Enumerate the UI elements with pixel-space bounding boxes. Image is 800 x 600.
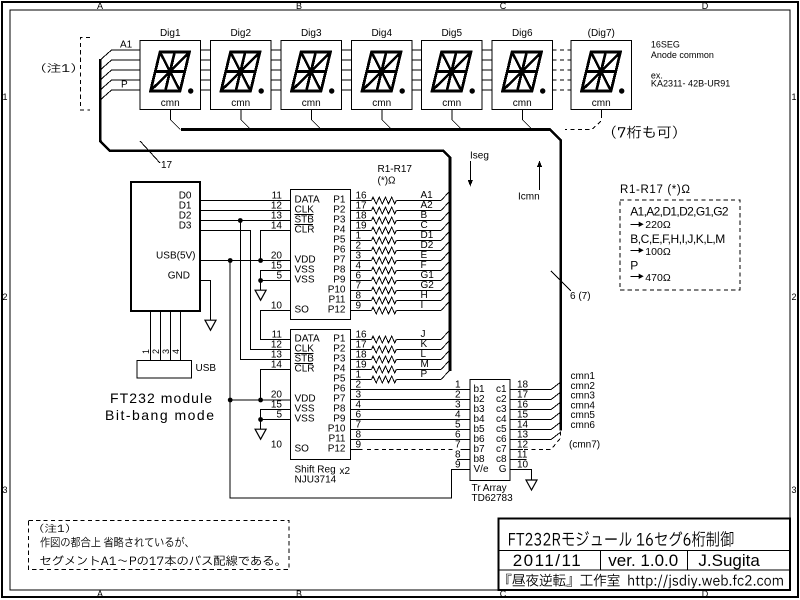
svg-text:3: 3 bbox=[791, 485, 796, 495]
title footer bbox=[506, 574, 783, 589]
svg-text:x2: x2 bbox=[340, 466, 351, 477]
display Dig5 bbox=[422, 28, 483, 110]
wire U4 c3 to cmn3 bbox=[510, 403, 560, 410]
svg-text:NJU3714: NJU3714 bbox=[295, 475, 337, 486]
svg-text:220Ω: 220Ω bbox=[645, 219, 671, 231]
svg-text:cmn: cmn bbox=[161, 98, 180, 109]
wire U4 c7 (cmn7) dashed bbox=[510, 432, 561, 450]
svg-text:VSS: VSS bbox=[295, 275, 315, 286]
wire cmn Dig3 bbox=[311, 110, 321, 130]
ground U2 bbox=[255, 290, 266, 300]
svg-text:USB: USB bbox=[196, 363, 217, 374]
net labels cmn1-cmn6 bbox=[571, 371, 596, 431]
wire U3 P7 to U4 b2 bbox=[351, 399, 471, 401]
display Dig6 bbox=[492, 28, 553, 110]
bus width tick 6 (7) bbox=[551, 271, 591, 302]
svg-text:470Ω: 470Ω bbox=[645, 272, 671, 284]
shift register U2 NJU3714 bbox=[291, 190, 351, 320]
svg-text:14: 14 bbox=[271, 360, 283, 371]
wire U2 SO to U3 DATA bbox=[261, 311, 291, 340]
svg-text:cmn: cmn bbox=[513, 98, 532, 109]
resistor R14 bbox=[351, 339, 450, 353]
svg-text:2: 2 bbox=[791, 292, 796, 302]
svg-text:CLR: CLR bbox=[295, 225, 315, 236]
svg-text:14: 14 bbox=[271, 221, 283, 232]
svg-text:FT232 module: FT232 module bbox=[110, 390, 212, 406]
svg-text:USB(5V): USB(5V) bbox=[156, 251, 195, 262]
wire D0 to U2 DATA bbox=[200, 200, 291, 202]
pin numbers U2 left bbox=[271, 191, 283, 312]
wire U3 P9 to U4 b4 bbox=[351, 419, 471, 421]
svg-text:cmn6: cmn6 bbox=[571, 420, 596, 431]
ground U3 bbox=[255, 429, 266, 439]
wire U3 P10 to U4 b5 bbox=[351, 429, 471, 431]
resistor R12 bbox=[351, 300, 450, 314]
shift reg caption bbox=[295, 465, 351, 486]
svg-text:5: 5 bbox=[276, 410, 282, 421]
display Dig7 bbox=[571, 28, 632, 110]
transistor array U4 TD62783 bbox=[470, 380, 510, 481]
svg-text:(Dig7): (Dig7) bbox=[588, 28, 615, 39]
svg-text:2: 2 bbox=[151, 349, 161, 354]
wire U3 P11 to U4 b6 bbox=[351, 439, 471, 441]
svg-text:V/e: V/e bbox=[474, 464, 489, 475]
resistor R4 bbox=[351, 220, 450, 234]
svg-text:3: 3 bbox=[2, 485, 7, 495]
stub U4 c8 bbox=[510, 459, 527, 461]
svg-text:A1: A1 bbox=[120, 40, 133, 51]
wire U3 P6 to U4 b1 bbox=[351, 389, 471, 391]
pin numbers U4 right bbox=[517, 380, 529, 471]
resistor R16 bbox=[351, 359, 450, 373]
note ref (chu1) top bbox=[42, 63, 75, 73]
svg-text:P12: P12 bbox=[328, 305, 346, 316]
svg-text:I: I bbox=[421, 300, 424, 311]
ground FT232 bbox=[205, 320, 216, 330]
display Dig2 bbox=[211, 28, 272, 110]
FT232 module U1 bbox=[131, 182, 200, 311]
wire USB5V to U2 VDD bbox=[200, 258, 291, 263]
current arrow Iseg bbox=[468, 151, 489, 187]
wire D2 to U2 STB and U3 STB bbox=[200, 218, 291, 359]
svg-text:R1-R17 (*)Ω: R1-R17 (*)Ω bbox=[620, 184, 690, 196]
svg-text:Dig1: Dig1 bbox=[160, 28, 181, 39]
svg-text:P12: P12 bbox=[328, 444, 346, 455]
wire U4 c5 to cmn5 bbox=[510, 423, 560, 430]
svg-text:1: 1 bbox=[791, 92, 796, 102]
shift register U3 NJU3714 bbox=[291, 330, 351, 460]
svg-text:ver. 1.0.0: ver. 1.0.0 bbox=[608, 551, 678, 570]
svg-text:10: 10 bbox=[271, 440, 283, 451]
svg-text:10: 10 bbox=[271, 301, 283, 312]
wire 5V rail down to U3 VDD and V/e bbox=[228, 261, 470, 499]
svg-text:Dig4: Dig4 bbox=[371, 28, 392, 39]
svg-text:cmn: cmn bbox=[442, 98, 461, 109]
svg-text:(*)Ω: (*)Ω bbox=[378, 176, 397, 187]
note box dashed bbox=[29, 521, 290, 570]
svg-text:B: B bbox=[296, 589, 302, 599]
resistor R8 bbox=[351, 260, 450, 274]
wire segment bus between digits bbox=[201, 50, 493, 90]
svg-text:(cmn7): (cmn7) bbox=[569, 440, 600, 451]
pin numbers U3 right bbox=[356, 330, 368, 451]
wire cmn Dig5 bbox=[452, 110, 462, 130]
svg-text:P: P bbox=[421, 369, 428, 380]
svg-text:9: 9 bbox=[455, 460, 461, 471]
svg-text:16SEG: 16SEG bbox=[651, 39, 680, 49]
ground U4 bbox=[526, 480, 537, 490]
svg-text:4: 4 bbox=[171, 349, 181, 354]
wire U3 VSS pair to ground bbox=[255, 410, 290, 440]
FT232 caption bbox=[105, 390, 214, 423]
resistor value table bbox=[620, 184, 740, 290]
wire cmn Dig7 dashed bbox=[565, 110, 601, 130]
svg-text:P: P bbox=[630, 259, 638, 273]
svg-text:B: B bbox=[296, 1, 302, 11]
wire cmn Dig6 bbox=[522, 110, 532, 130]
svg-text:6 (7): 6 (7) bbox=[570, 291, 591, 302]
svg-text:9: 9 bbox=[356, 301, 362, 312]
svg-text:GND: GND bbox=[168, 271, 190, 282]
svg-text:B,C,E,F,H,I,J,K,L,M: B,C,E,F,H,I,J,K,L,M bbox=[630, 232, 725, 246]
resistor R13 bbox=[351, 329, 450, 343]
resistor R17 bbox=[351, 369, 450, 383]
svg-text:cmn: cmn bbox=[231, 98, 250, 109]
svg-text:cmn: cmn bbox=[592, 98, 611, 109]
display Dig1 bbox=[140, 28, 201, 110]
resistor group label bbox=[378, 164, 413, 187]
svg-text:5: 5 bbox=[276, 271, 282, 282]
svg-text:CLR: CLR bbox=[295, 364, 315, 375]
svg-text:A: A bbox=[97, 1, 103, 11]
svg-text:SO: SO bbox=[295, 305, 310, 316]
svg-text:Dig5: Dig5 bbox=[441, 28, 462, 39]
svg-text:J.Sugita: J.Sugita bbox=[698, 551, 760, 570]
title text bbox=[509, 531, 733, 547]
wire U4 c2 to cmn2 bbox=[510, 393, 560, 400]
svg-text:Bit-bang mode: Bit-bang mode bbox=[105, 407, 214, 423]
svg-text:G: G bbox=[499, 464, 507, 475]
wire U2 CLR to VDD bbox=[258, 231, 290, 263]
svg-text:1: 1 bbox=[2, 92, 7, 102]
transistor array caption bbox=[472, 483, 514, 504]
note bracket dashed bbox=[81, 38, 91, 111]
svg-text:9: 9 bbox=[356, 440, 362, 451]
pin numbers U2 right bbox=[356, 191, 368, 312]
svg-text:R1-R17: R1-R17 bbox=[378, 164, 413, 175]
pin numbers U4 left bbox=[455, 380, 461, 471]
dashed segment bus to optional Dig7 bbox=[553, 50, 572, 90]
resistor R11 bbox=[351, 290, 450, 304]
svg-text:KA2311- 42B-UR91: KA2311- 42B-UR91 bbox=[651, 79, 730, 89]
wire U2 VSS pair to ground bbox=[255, 271, 290, 301]
svg-text:cmn: cmn bbox=[372, 98, 391, 109]
wire cmn Dig4 bbox=[382, 110, 392, 130]
wires USB pins 1-4 bbox=[141, 311, 181, 361]
svg-text:D: D bbox=[702, 1, 709, 11]
svg-text:2: 2 bbox=[2, 292, 7, 302]
svg-text:C: C bbox=[500, 1, 507, 11]
svg-text:TD62783: TD62783 bbox=[472, 493, 514, 504]
wire GND bbox=[200, 281, 211, 321]
svg-text:Dig6: Dig6 bbox=[512, 28, 533, 39]
note line3 bbox=[40, 555, 278, 566]
svg-text:10: 10 bbox=[517, 460, 529, 471]
display type note bbox=[651, 39, 730, 88]
node A1 stub bbox=[100, 50, 140, 100]
display Dig4 bbox=[352, 28, 413, 110]
wire U3 P12 to U4 b7 dashed bbox=[351, 449, 471, 451]
svg-text:Anode common: Anode common bbox=[651, 50, 714, 60]
bus width tick 17 bbox=[140, 141, 173, 171]
svg-text:Dig2: Dig2 bbox=[230, 28, 251, 39]
svg-text:A1,A2,D1,D2,G1,G2: A1,A2,D1,D2,G1,G2 bbox=[630, 205, 729, 219]
resistor R5 bbox=[351, 230, 450, 244]
wire U4 c4 to cmn4 bbox=[510, 413, 560, 420]
note 7keta bbox=[612, 126, 677, 139]
wire U3 P8 to U4 b3 bbox=[351, 409, 471, 411]
title block bbox=[499, 519, 791, 591]
svg-text:cmn: cmn bbox=[302, 98, 321, 109]
svg-text:D3: D3 bbox=[179, 221, 192, 232]
svg-text:100Ω: 100Ω bbox=[645, 246, 671, 258]
svg-text:17: 17 bbox=[161, 160, 173, 171]
resistor R15 bbox=[351, 349, 450, 363]
resistor R1 bbox=[351, 190, 450, 204]
svg-text:3: 3 bbox=[161, 349, 171, 354]
wire U4 c1 to cmn1 bbox=[510, 383, 560, 390]
wire cmn Dig2 bbox=[241, 110, 251, 130]
svg-text:SO: SO bbox=[295, 444, 310, 455]
wire U4 G to ground bbox=[510, 470, 532, 481]
resistor R10 bbox=[351, 280, 450, 294]
resistor R3 bbox=[351, 210, 450, 224]
wire U3 CLR to VDD bbox=[258, 370, 290, 403]
wire 17-line segment bus bbox=[100, 59, 450, 371]
wire D3 to U3 CLK bbox=[200, 231, 291, 350]
svg-text:A: A bbox=[97, 589, 103, 599]
note line1 (chu1) bbox=[40, 524, 69, 533]
wire cmn Dig1 bbox=[170, 110, 180, 130]
wire U4 c6 to cmn6 bbox=[510, 433, 560, 440]
resistor R2 bbox=[351, 200, 450, 214]
resistor R6 bbox=[351, 240, 450, 254]
svg-text:Iseg: Iseg bbox=[470, 151, 489, 162]
stub U4 b8 bbox=[457, 459, 470, 461]
display Dig3 bbox=[281, 28, 342, 110]
resistor R7 bbox=[351, 250, 450, 264]
svg-text:VSS: VSS bbox=[295, 414, 315, 425]
svg-text:1: 1 bbox=[141, 349, 151, 354]
current arrow Icmn bbox=[518, 161, 542, 203]
svg-text:2011/11: 2011/11 bbox=[513, 551, 581, 570]
pin numbers U3 left bbox=[271, 330, 283, 451]
svg-text:Dig3: Dig3 bbox=[301, 28, 322, 39]
wire D1 to U2 CLK bbox=[200, 210, 291, 212]
wire cmn bus bbox=[181, 130, 561, 431]
svg-text:Icmn: Icmn bbox=[518, 192, 540, 203]
USB connector J1 bbox=[137, 361, 216, 379]
resistor R9 bbox=[351, 270, 450, 284]
svg-text:P: P bbox=[121, 80, 128, 91]
note line2 bbox=[40, 537, 188, 548]
